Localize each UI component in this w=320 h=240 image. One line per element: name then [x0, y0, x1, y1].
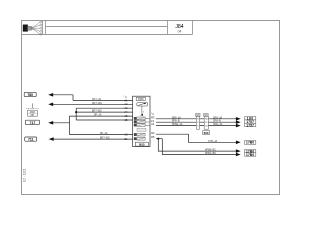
header band middle line: [46, 26, 168, 28]
wire from arrow3 to junction vertical: [53, 122, 70, 124]
svg-text:D2: D2: [151, 131, 155, 135]
junction vertical x=69.5: [69, 116, 71, 135]
destination box 1750a: [245, 149, 256, 153]
svg-text:C1: C1: [151, 122, 155, 126]
bottom code box: [135, 142, 148, 146]
header band bottom line: [22, 34, 193, 36]
svg-text:MF7–BG: MF7–BG: [92, 102, 102, 105]
wire branch down 1: [158, 139, 237, 151]
svg-text:⌜C: ⌜C: [151, 112, 154, 116]
destination box 1757a: [245, 120, 256, 124]
label box 1503: [136, 97, 145, 100]
svg-text:600: 600: [204, 131, 209, 135]
arrow right row2: [236, 120, 241, 124]
svg-text:C7B–JA: C7B–JA: [208, 140, 218, 143]
splice code box 600: [203, 131, 210, 135]
harness connector icon (black plug with fanned wires): [23, 21, 42, 35]
destination box 17B0: [245, 141, 256, 145]
internal block: [137, 128, 146, 131]
header band divider x=192 (J84 cell right): [192, 21, 194, 35]
header band divider x=42.7: [42, 21, 44, 35]
svg-text:9P–JA: 9P–JA: [94, 114, 102, 117]
svg-text:MAR: MAR: [30, 111, 35, 114]
contact row 3: [134, 124, 150, 127]
wire vertical step to pin A1: [72, 95, 74, 101]
earth stud component: [26, 103, 39, 117]
svg-text:A2: A2: [124, 133, 128, 137]
splice strip N3 left: [196, 113, 200, 129]
wire right row 1: [156, 118, 237, 120]
svg-text:A1: A1: [124, 98, 128, 102]
contact row 4: [134, 133, 145, 136]
svg-text:17B0: 17B0: [246, 141, 254, 145]
svg-text:8P6E–JA: 8P6E–JA: [172, 123, 183, 126]
wire branch down 2: [162, 139, 237, 155]
svg-text:1B: 1B: [124, 118, 127, 122]
svg-text:6P6D–BC: 6P6D–BC: [205, 152, 216, 155]
junction dot: [75, 111, 77, 113]
svg-text:A5: A5: [124, 114, 128, 118]
arrow right 6P6B: [236, 149, 241, 153]
relay coil: [137, 103, 148, 106]
destination box 1750b: [245, 153, 256, 157]
svg-text:711: 711: [28, 138, 34, 142]
wire lower right row D2: [156, 134, 237, 142]
arrow to 717: [48, 121, 53, 125]
node box 717: [25, 120, 39, 125]
splice strip N3 right: [204, 113, 209, 129]
junction vertical x=76.2: [75, 108, 77, 120]
border frame: [22, 21, 280, 195]
svg-text:E2 - 1121: E2 - 1121: [23, 168, 27, 182]
wire row B2: [54, 138, 133, 140]
wire from arrow1: [53, 94, 73, 96]
destination box 180: [245, 117, 256, 121]
wire row A6 from junction: [76, 119, 132, 121]
node box 711: [25, 137, 37, 142]
svg-text:B03: B03: [139, 142, 145, 146]
header band divider x=45.7: [45, 21, 47, 35]
contact row 5: [134, 137, 145, 140]
svg-text:6P6B–BC: 6P6B–BC: [205, 149, 216, 152]
contact row 2: [134, 120, 150, 123]
svg-text:R3: R3: [151, 115, 155, 119]
wire lower right row D5: [156, 138, 162, 140]
svg-text:BP7–BG: BP7–BG: [92, 110, 102, 113]
svg-text:780: 780: [27, 93, 33, 97]
svg-text:A2: A2: [124, 102, 128, 106]
wire row A1: [73, 99, 133, 101]
svg-text:D5: D5: [151, 135, 155, 139]
arrow to 711: [49, 137, 54, 141]
wire row A3: [76, 107, 132, 109]
svg-text:BP7–BG: BP7–BG: [100, 137, 110, 140]
arrow right 6P6D: [236, 153, 241, 157]
wire right row 2: [156, 121, 237, 123]
relay module 1503 box: [133, 96, 150, 146]
svg-text:1503: 1503: [138, 98, 144, 101]
arrow right row3: [236, 124, 241, 128]
wire row A5: [70, 115, 133, 117]
svg-text:SP7–JA: SP7–JA: [92, 98, 101, 101]
arrow to 780: [48, 93, 53, 97]
destination box 1757b: [245, 123, 256, 127]
contact row 1: [134, 117, 150, 120]
header band divider x=167 (J84 cell left): [167, 21, 169, 35]
svg-text:SPE–JA: SPE–JA: [213, 123, 223, 126]
svg-text:A4: A4: [124, 110, 128, 114]
actuator arrow: [140, 114, 143, 116]
arrow right row1: [236, 117, 241, 121]
svg-text:17B0: 17B0: [246, 153, 254, 157]
svg-text:9P–JA: 9P–JA: [100, 132, 108, 135]
wire row A4: [76, 111, 132, 113]
svg-text:1757: 1757: [246, 123, 254, 127]
coil wire down: [141, 106, 143, 114]
svg-text:MH: MH: [31, 115, 35, 117]
svg-text:717: 717: [30, 121, 36, 125]
wire right row 3: [156, 125, 237, 127]
wire row B1 (lower left from junction vertical): [70, 134, 133, 136]
junction dot D5: [157, 138, 159, 140]
arrow right row D2: [236, 141, 241, 145]
wire row A2: [53, 103, 133, 105]
arrow 2 (unterminated feed): [48, 103, 53, 107]
node box 780: [24, 92, 36, 97]
svg-text:04: 04: [178, 30, 182, 34]
svg-text:E1: E1: [124, 137, 128, 141]
svg-text:A3: A3: [124, 106, 128, 110]
